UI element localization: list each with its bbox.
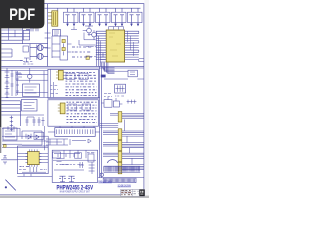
bridge glyph cluster — [23, 46, 33, 64]
U2 pin wires — [17, 153, 48, 162]
ref text row — [20, 166, 30, 168]
diode row D40 — [22, 131, 42, 145]
bus left links 1 — [100, 123, 119, 127]
plus terminal column — [10, 116, 13, 131]
zener stack column — [5, 68, 10, 98]
logic box FF1 — [101, 97, 122, 107]
wire aux rails — [16, 71, 48, 98]
stub wires across divider — [45, 33, 51, 48]
wires IC top — [109, 27, 124, 30]
audio right cluster — [87, 153, 96, 174]
wire hot rail — [1, 70, 47, 72]
jungle section box — [17, 146, 48, 174]
bridge lattice box — [115, 84, 126, 93]
IC U1 left bus — [97, 31, 101, 66]
filter box FB2 — [22, 99, 38, 111]
sheet border frame — [0, 4, 144, 195]
rect cluster below lattice — [104, 94, 124, 97]
bus stair routing — [102, 63, 115, 74]
bridge diode cluster — [20, 58, 29, 62]
bus group 3 — [103, 143, 144, 148]
wire AC bus — [1, 43, 47, 45]
thermistor TH1 — [62, 39, 65, 42]
thermistor TH2 — [62, 47, 65, 50]
primary section box — [48, 69, 99, 98]
subtitle text — [60, 191, 90, 194]
resistor R11 — [71, 27, 77, 30]
section divider verticals — [100, 66, 102, 177]
wires under U2 — [22, 167, 46, 172]
net blob — [101, 75, 106, 78]
secondary section box — [48, 100, 99, 126]
wire to jungle — [1, 159, 17, 161]
main bus double line — [1, 66, 144, 68]
wire J1 to boxes — [57, 8, 59, 11]
switching cage box — [60, 36, 68, 60]
audio section box — [52, 150, 97, 182]
wire right upper — [104, 68, 128, 71]
brand logo — [139, 190, 144, 197]
bus group 1 — [110, 113, 144, 118]
vertical section divider left — [47, 4, 49, 66]
svg-text:MAIN POWER SUPPLY CIRCUIT UNIT: MAIN POWER SUPPLY CIRCUIT UNIT — [60, 191, 90, 194]
wires IC right stubs — [138, 31, 140, 62]
capacitor C92 — [68, 176, 75, 182]
wire top feed — [45, 7, 141, 9]
bottom gray band — [0, 196, 149, 198]
model text — [57, 186, 94, 192]
wires to IC — [79, 33, 96, 46]
wire T-link — [36, 45, 38, 60]
feedback cluster — [101, 53, 106, 62]
IC right border stubs — [139, 58, 144, 61]
pre column lines — [45, 126, 49, 150]
wire T bus — [29, 44, 31, 60]
bus interlinks — [125, 120, 133, 165]
audio mid dashes — [56, 162, 84, 168]
crystal X1 — [3, 156, 7, 165]
relay RL1 — [23, 30, 29, 40]
audio sub box — [53, 152, 61, 158]
wire right stub — [104, 74, 144, 79]
label pwb — [98, 180, 112, 183]
rectifier block BD1 — [53, 30, 61, 37]
wire bottom rail — [17, 174, 52, 177]
pin header CN5 — [48, 128, 100, 137]
low-b glyphs — [7, 126, 44, 139]
title block text rows — [121, 191, 138, 195]
socket ring — [100, 173, 103, 176]
top row diode-to-ground symbols — [66, 8, 141, 26]
jumper JP1 — [118, 112, 122, 122]
capacitor bank CX — [26, 27, 38, 31]
capacitor C22 — [16, 72, 22, 80]
label sheet — [118, 184, 131, 187]
cap pair C41 — [25, 117, 35, 126]
fuse F2 — [86, 56, 89, 59]
connector CN4 — [58, 103, 65, 114]
pre box cluster — [46, 139, 91, 145]
audio wires — [54, 154, 80, 157]
low-b wires — [2, 128, 48, 147]
control box — [23, 84, 40, 96]
left dark edge strip — [0, 27, 1, 153]
transformer T1 — [30, 45, 48, 51]
wire return rail — [1, 96, 99, 98]
board connector CN6 — [103, 178, 136, 183]
jumper JP3 — [118, 140, 122, 150]
left lower box — [3, 128, 17, 140]
IC U1 micom — [96, 30, 139, 62]
IC U1 row dashes — [86, 47, 96, 57]
wires switch node — [52, 36, 72, 58]
svg-text:PDF: PDF — [9, 6, 35, 24]
bus group 2 — [103, 131, 144, 136]
snubber dashes — [72, 47, 92, 57]
transformer T2 — [30, 53, 48, 59]
IC U1 pin verticals — [128, 31, 134, 56]
connector CN1 — [56, 70, 63, 80]
fuse F1 — [33, 24, 38, 28]
cap column C21 — [11, 70, 14, 96]
primary left verticals — [51, 69, 59, 97]
jumper JP2 — [118, 129, 122, 140]
bus group 5 — [122, 165, 144, 170]
wire above CN6 — [98, 177, 144, 179]
opto PC1 — [28, 68, 32, 83]
bus group 4 — [103, 153, 144, 158]
capacitor C91 — [59, 176, 66, 182]
wires to header — [60, 126, 94, 127]
left input ladder wires — [1, 27, 22, 44]
transistor Q1 — [83, 26, 93, 36]
connector J1 — [48, 11, 58, 26]
audio parts — [57, 153, 82, 165]
secondary ladder wires — [1, 101, 20, 126]
ladder tick verticals — [9, 27, 16, 41]
CN1 fanout — [63, 72, 66, 78]
title block frame — [121, 189, 145, 196]
secondary parts rows — [67, 102, 97, 122]
diode D31 — [128, 70, 137, 77]
CRT connector comb — [104, 166, 141, 172]
left stub wires — [1, 49, 12, 57]
pdf badge — [0, 0, 44, 28]
jumper JP4 — [118, 151, 122, 161]
aux glyph column — [16, 71, 19, 95]
cap pair C42 — [37, 117, 44, 126]
glyphs right top — [127, 100, 137, 104]
jungle lower glyphs — [19, 169, 47, 171]
wire left lower stub — [1, 60, 22, 62]
audio mid rail — [53, 160, 96, 170]
IC U2 jungle — [25, 149, 41, 166]
transistor Q2 — [88, 30, 97, 40]
kv lead diagonal — [5, 180, 16, 191]
deflection arc — [108, 160, 118, 163]
audio verticals — [64, 150, 86, 158]
page background — [0, 0, 149, 198]
snubber box — [66, 73, 88, 79]
led L1 — [3, 145, 6, 148]
right page margin — [144, 0, 149, 196]
primary parts rows — [66, 72, 97, 95]
wire mid rail — [1, 114, 44, 116]
jumper JP5 — [118, 162, 122, 173]
reg box — [68, 104, 91, 110]
degauss/filter boxes row — [64, 12, 143, 22]
